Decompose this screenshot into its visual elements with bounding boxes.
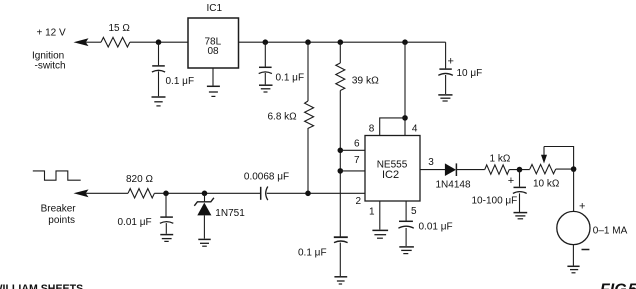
svg-text:1N751: 1N751 <box>215 208 245 219</box>
resistor R 10 kohm (pot) <box>530 164 556 173</box>
svg-text:4: 4 <box>412 124 418 135</box>
wire: meter to ground <box>572 245 574 266</box>
node: filter cap junction <box>517 167 523 173</box>
resistor R 820 ohm <box>128 189 154 198</box>
wire: loop to pin 8 <box>380 118 405 136</box>
wire: pin 3 output <box>420 169 445 171</box>
wire: drop to 6.8k <box>307 42 309 101</box>
ground (0.01uF) <box>160 234 173 236</box>
node: figure caption <box>600 282 636 289</box>
svg-text:2: 2 <box>356 196 362 207</box>
wire: drop to pin 8/4 loop <box>404 42 406 135</box>
op-amp U1: IC1 78L08 regulator box <box>188 18 239 68</box>
svg-text:15 Ω: 15 Ω <box>109 23 131 34</box>
wire: 39k down to pins 6/7 and timing cap <box>339 91 341 237</box>
svg-text:39 kΩ: 39 kΩ <box>352 76 379 87</box>
wire: 820 to coupling cap <box>154 192 260 194</box>
svg-text:3: 3 <box>428 157 434 168</box>
svg-text:0–1 MA: 0–1 MA <box>593 226 628 237</box>
svg-text:points: points <box>48 215 75 226</box>
wire: cap to pin 2 <box>267 192 365 194</box>
wire: diode to 1k <box>456 169 484 171</box>
wire: rail end to 10uF <box>445 42 447 68</box>
node: junction to pins 8/4 <box>402 39 408 45</box>
ground (pin 5 cap) <box>399 246 414 248</box>
wire: pot wiper arm <box>543 147 545 158</box>
svg-text:5: 5 <box>628 282 636 289</box>
svg-text:6.8 kΩ: 6.8 kΩ <box>268 112 298 123</box>
svg-text:IC2: IC2 <box>382 169 399 181</box>
ground (below IC1) <box>212 68 214 86</box>
node: pin 8/4 tie <box>402 115 408 121</box>
node: 0.01uF junction <box>163 191 169 197</box>
op-amp U2: NE555 IC2 box <box>365 136 420 202</box>
capacitor C 0.0068uF (series coupling) <box>260 187 262 200</box>
svg-text:0.1 μF: 0.1 μF <box>298 248 327 259</box>
svg-text:10-100 μF: 10-100 μF <box>472 196 518 207</box>
svg-text:0.01 μF: 0.01 μF <box>419 222 453 233</box>
wire: 6.8k to trigger node <box>307 128 309 193</box>
svg-text:FIG.: FIG. <box>600 282 631 289</box>
node: pin 7 junction <box>338 168 344 174</box>
svg-text:7: 7 <box>354 155 360 166</box>
svg-text:IC1: IC1 <box>207 3 223 14</box>
resistor R 15 ohm <box>101 37 130 47</box>
svg-text:1 kΩ: 1 kΩ <box>490 154 511 165</box>
ground (meter) <box>567 265 579 267</box>
node: junction at C2 <box>263 39 269 45</box>
wire: node to meter <box>573 169 575 211</box>
svg-text:5: 5 <box>411 206 417 217</box>
wire: 8V rail from IC1 output <box>239 41 446 43</box>
wire: drop to 39k <box>339 42 341 63</box>
capacitor C 10uF (polarized) <box>448 56 454 68</box>
svg-text:10 μF: 10 μF <box>457 68 483 79</box>
ground (zener) <box>198 238 210 240</box>
svg-text:08: 08 <box>208 46 220 57</box>
svg-text:1N4148: 1N4148 <box>436 180 471 191</box>
ground (filter cap) <box>514 212 528 214</box>
svg-text:+: + <box>579 201 585 213</box>
ground (below 10uF) <box>438 94 452 96</box>
wire: pin 6 lead <box>340 149 365 151</box>
svg-text:1: 1 <box>369 207 375 218</box>
svg-text:0.01 μF: 0.01 μF <box>118 217 152 228</box>
node: junction at 6.8k <box>305 39 311 45</box>
svg-text:8: 8 <box>369 124 375 135</box>
node B: breaker points input squarewave symbol <box>33 171 81 180</box>
svg-text:0.1 μF: 0.1 μF <box>276 73 305 84</box>
node: pin 6 junction <box>338 148 344 154</box>
ground (below C2) <box>259 84 273 86</box>
capacitor C 0.01uF (breaker) <box>165 193 167 216</box>
diode Z1 1N751 zener <box>204 193 206 202</box>
wire: rail from 15 ohm to IC1 <box>130 41 188 43</box>
resistor R 6.8 kohm <box>305 101 314 128</box>
capacitor C 10-100uF (polarized) <box>508 175 514 187</box>
ground (below timing cap) <box>334 276 347 278</box>
svg-text:WILLIAM SHEETS: WILLIAM SHEETS <box>0 283 83 289</box>
node: author credit text <box>0 283 83 289</box>
wire: breaker input arrow <box>74 189 89 197</box>
wire: pin 7 lead <box>340 170 365 172</box>
wire: pin 5 lead <box>405 201 407 221</box>
diode D1 1N4148 <box>445 163 456 176</box>
meter M1 0-1 MA <box>557 211 590 244</box>
svg-text:6: 6 <box>354 139 360 150</box>
svg-text:10 kΩ: 10 kΩ <box>533 179 560 190</box>
node: zener junction <box>202 191 208 197</box>
node: trigger junction <box>305 191 311 197</box>
svg-text:-switch: -switch <box>35 61 66 72</box>
svg-text:0.1 μF: 0.1 μF <box>166 76 195 87</box>
ground (below C1) <box>152 96 166 98</box>
capacitor C1 0.1uF (input bypass) <box>158 42 160 65</box>
svg-text:+: + <box>448 56 454 68</box>
capacitor C2 0.1uF (output bypass) <box>264 42 266 66</box>
capacitor C 0.1uF (timing) <box>334 236 348 238</box>
svg-text:0.0068 μF: 0.0068 μF <box>244 172 289 183</box>
capacitor C 0.01uF (pin 5) <box>399 220 413 222</box>
ground (pin 1) <box>372 229 388 231</box>
svg-text:+: + <box>508 175 514 187</box>
svg-text:+ 12 V: + 12 V <box>37 28 67 39</box>
node: junction at C1 <box>156 39 162 45</box>
node: junction at 39k <box>338 39 344 45</box>
svg-text:Breaker: Breaker <box>41 204 77 215</box>
wire: +12V input arrow <box>74 38 89 46</box>
resistor R 1 kohm <box>485 165 510 174</box>
resistor R 39 kohm <box>336 63 345 91</box>
node A: +12V supply label <box>32 28 66 72</box>
node: meter junction <box>571 166 577 172</box>
wire: pin 1 to ground <box>379 201 381 230</box>
wire: 1k to node <box>509 169 530 171</box>
wire: pot to meter node <box>556 168 574 170</box>
svg-text:820 Ω: 820 Ω <box>126 174 153 185</box>
